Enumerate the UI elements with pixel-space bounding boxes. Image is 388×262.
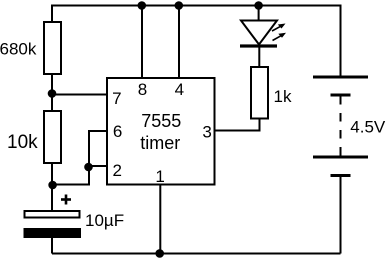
svg-text:3: 3 [202, 122, 211, 141]
svg-text:1: 1 [155, 167, 164, 186]
svg-text:7: 7 [112, 89, 121, 108]
svg-text:4.5V: 4.5V [350, 117, 386, 136]
svg-text:680k: 680k [0, 39, 37, 58]
svg-text:10µF: 10µF [85, 211, 124, 230]
svg-text:4: 4 [175, 80, 184, 99]
svg-text:timer: timer [140, 133, 180, 153]
svg-text:2: 2 [112, 161, 121, 180]
svg-text:6: 6 [113, 122, 122, 141]
svg-text:8: 8 [138, 80, 147, 99]
svg-text:7555: 7555 [141, 111, 181, 131]
svg-text:10k: 10k [7, 132, 38, 153]
svg-text:1k: 1k [274, 87, 292, 106]
